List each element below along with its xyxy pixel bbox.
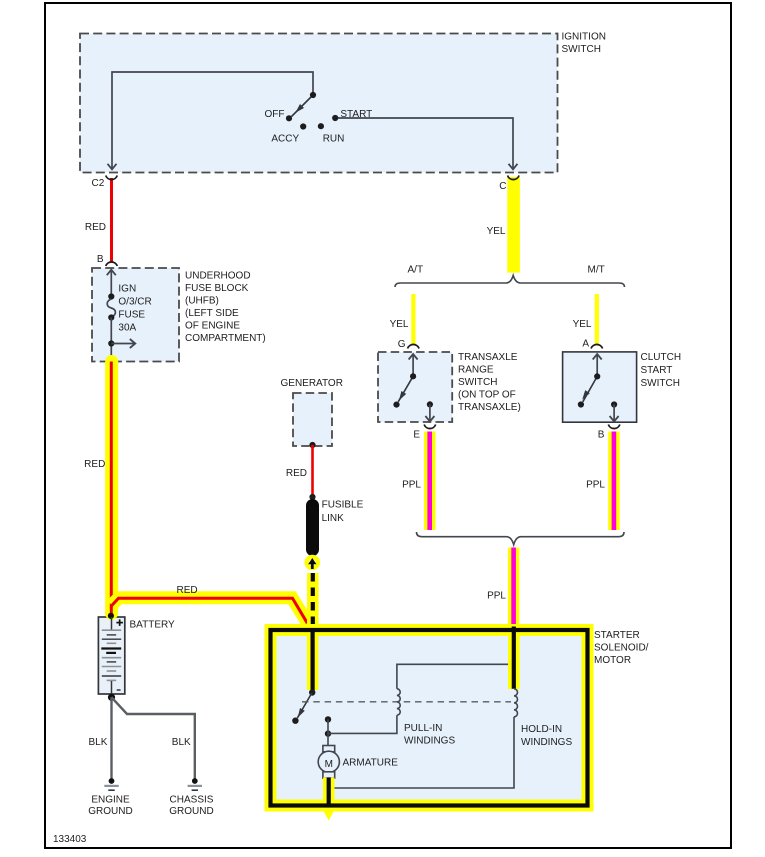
svg-text:TRANSAXLE: TRANSAXLE [458, 352, 518, 363]
connector A cup [591, 344, 603, 348]
svg-text:SWITCH: SWITCH [458, 377, 497, 388]
svg-text:BATTERY: BATTERY [130, 620, 176, 631]
svg-text:ACCY: ACCY [271, 134, 299, 145]
svg-text:SWITCH: SWITCH [641, 378, 680, 389]
svg-text:IGNITION: IGNITION [562, 32, 606, 43]
node: pivot [310, 92, 316, 98]
svg-text:SOLENOID/: SOLENOID/ [594, 643, 649, 654]
node [108, 314, 114, 320]
node: START contact [332, 115, 338, 121]
svg-text:WINDINGS: WINDINGS [404, 736, 455, 747]
connector B (clutch) cup [608, 425, 620, 429]
generator box [293, 393, 332, 446]
wire: ignition feed to C2 [112, 72, 313, 168]
svg-text:M: M [325, 759, 333, 770]
wire: pull-in winding loop [397, 664, 513, 689]
switch output contact with down arrow (clutch) [611, 401, 617, 407]
svg-text:(ON TOP OF: (ON TOP OF [458, 390, 516, 401]
wire RED fuse block to battery (highlighted) [105, 362, 118, 613]
wire PPL clutch to join (highlighted) [608, 432, 619, 531]
switch lever (clutch) [583, 376, 597, 401]
wire BLK battery to engine ground [110, 697, 112, 778]
connector E cup [424, 425, 436, 429]
wire RED C2 to B [110, 178, 113, 262]
svg-text:SWITCH: SWITCH [562, 44, 601, 55]
merge brace [417, 532, 625, 545]
svg-text:MOTOR: MOTOR [594, 655, 631, 666]
svg-text:PPL: PPL [402, 480, 421, 491]
transaxle range switch box [378, 352, 452, 422]
wire PPL join to starter solenoid (highlighted) [508, 548, 519, 630]
svg-text:133403: 133403 [53, 834, 87, 845]
svg-text:TRANSAXLE): TRANSAXLE) [458, 402, 521, 413]
node: battery positive terminal [105, 607, 118, 620]
fuse feed wire with up arrow [110, 271, 112, 297]
svg-text:GENERATOR: GENERATOR [281, 378, 343, 389]
node [309, 494, 315, 500]
fuse IGN O/3/CR 30A [107, 299, 115, 317]
svg-text:30A: 30A [118, 323, 136, 334]
wire: hold-in winding to motor return [331, 717, 514, 788]
node: RUN contact [318, 123, 324, 129]
node with branch arrow [108, 340, 114, 346]
svg-text:COMPARTMENT): COMPARTMENT) [185, 333, 266, 344]
svg-text:YEL: YEL [390, 319, 409, 330]
svg-text:YEL: YEL [487, 226, 506, 237]
svg-text:FUSE BLOCK: FUSE BLOCK [185, 283, 249, 294]
node: OFF contact [286, 115, 292, 121]
node: ACCY contact [300, 123, 306, 129]
wire below fuse [110, 318, 112, 362]
svg-text:RED: RED [85, 222, 106, 233]
svg-text:(LEFT SIDE: (LEFT SIDE [185, 308, 239, 319]
wire YEL stub to clutch start switch [595, 294, 599, 344]
svg-text:PPL: PPL [586, 480, 605, 491]
ignition switch box [80, 34, 558, 173]
wire YEL C to split (highlighted) [507, 177, 520, 273]
svg-text:YEL: YEL [573, 319, 592, 330]
svg-text:OFF: OFF [265, 109, 285, 120]
svg-text:B: B [598, 430, 605, 441]
wire PPL transaxle to join (highlighted) [424, 432, 435, 531]
battery [98, 617, 124, 694]
split brace A/T M/T [395, 275, 625, 287]
hold-in winding coil [514, 689, 518, 717]
svg-text:OF ENGINE: OF ENGINE [185, 320, 240, 331]
svg-text:BLK: BLK [172, 737, 191, 748]
clutch start switch box [563, 352, 637, 422]
wire RED battery to starter branch (highlighted) [112, 598, 309, 625]
svg-text:RED: RED [84, 459, 105, 470]
wire YEL stub to transaxle range switch [411, 294, 415, 345]
pull-in winding coil [397, 689, 400, 715]
armature brush block [323, 746, 335, 752]
svg-text:CLUTCH: CLUTCH [641, 352, 682, 363]
wire RED generator to fusible link [311, 445, 314, 496]
mechanical linkage dashed line [302, 701, 511, 703]
switch output contact with down arrow (transaxle) [427, 401, 433, 407]
svg-text:ARMATURE: ARMATURE [343, 758, 399, 769]
svg-text:(UHFB): (UHFB) [185, 295, 219, 306]
svg-text:HOLD-IN: HOLD-IN [521, 724, 562, 735]
svg-text:WINDINGS: WINDINGS [521, 737, 572, 748]
connector B cup [106, 262, 118, 266]
starter solenoid/motor box (highlighted border) [271, 630, 588, 806]
svg-text:E: E [413, 430, 420, 441]
svg-text:FUSE: FUSE [118, 310, 145, 321]
switch lever (transaxle) [398, 376, 413, 402]
svg-text:O/3/CR: O/3/CR [118, 297, 151, 308]
wire BLK battery to chassis ground [112, 697, 195, 778]
svg-text:ENGINE: ENGINE [91, 795, 130, 806]
svg-text:BLK: BLK [89, 737, 108, 748]
solenoid switch lever [297, 693, 312, 718]
splice ring with arrow [307, 573, 319, 630]
exit arrow below starter box [322, 808, 336, 821]
node: battery negative [108, 694, 115, 701]
armature motor M [318, 751, 339, 772]
starter box black border [271, 630, 588, 806]
motor contact nodes [325, 716, 331, 722]
svg-text:C2: C2 [92, 178, 105, 189]
node [108, 293, 114, 299]
svg-text:UNDERHOOD: UNDERHOOD [185, 270, 251, 281]
switch input arrow (transaxle) [412, 355, 414, 377]
fusible link element [306, 506, 319, 550]
wire: START output to C [335, 118, 513, 168]
svg-text:PULL-IN: PULL-IN [404, 723, 442, 734]
svg-text:GROUND: GROUND [169, 806, 213, 817]
svg-text:RED: RED [177, 585, 198, 596]
svg-text:LINK: LINK [322, 513, 345, 524]
svg-text:FUSIBLE: FUSIBLE [322, 500, 364, 511]
wire PPL inside starter to hold-in winding (highlighted) [508, 624, 520, 689]
svg-text:START: START [641, 365, 673, 376]
svg-text:RED: RED [286, 468, 307, 479]
svg-text:GROUND: GROUND [88, 806, 132, 817]
underhood fuse block box [92, 268, 179, 362]
svg-text:RUN: RUN [323, 134, 345, 145]
wire: dashed fusible-link feed to starter (highlighted) [311, 573, 315, 630]
wire: battery feed inside starter (highlighted) [307, 624, 319, 690]
svg-text:G: G [398, 339, 406, 350]
svg-text:START: START [340, 109, 372, 120]
svg-text:RANGE: RANGE [458, 365, 494, 376]
svg-text:A/T: A/T [408, 265, 424, 276]
connector G cup [408, 344, 420, 348]
node: generator output [309, 442, 315, 448]
svg-text:IGN: IGN [118, 284, 136, 295]
svg-text:M/T: M/T [588, 265, 605, 276]
engine ground symbol [109, 778, 115, 784]
svg-text:C: C [499, 181, 506, 192]
switch lever (ignition) [292, 95, 314, 117]
svg-text:PPL: PPL [487, 591, 506, 602]
svg-text:STARTER: STARTER [594, 630, 640, 641]
chassis ground symbol [192, 778, 198, 784]
solenoid contact node [309, 689, 315, 695]
connector C2 cup [106, 176, 118, 180]
connector C cup [508, 176, 520, 180]
svg-text:CHASSIS: CHASSIS [170, 795, 214, 806]
svg-text:B: B [97, 254, 104, 265]
switch input arrow (clutch) [596, 355, 598, 377]
svg-text:A: A [582, 339, 589, 350]
wire: armature to ground exit (highlighted) [323, 778, 335, 811]
